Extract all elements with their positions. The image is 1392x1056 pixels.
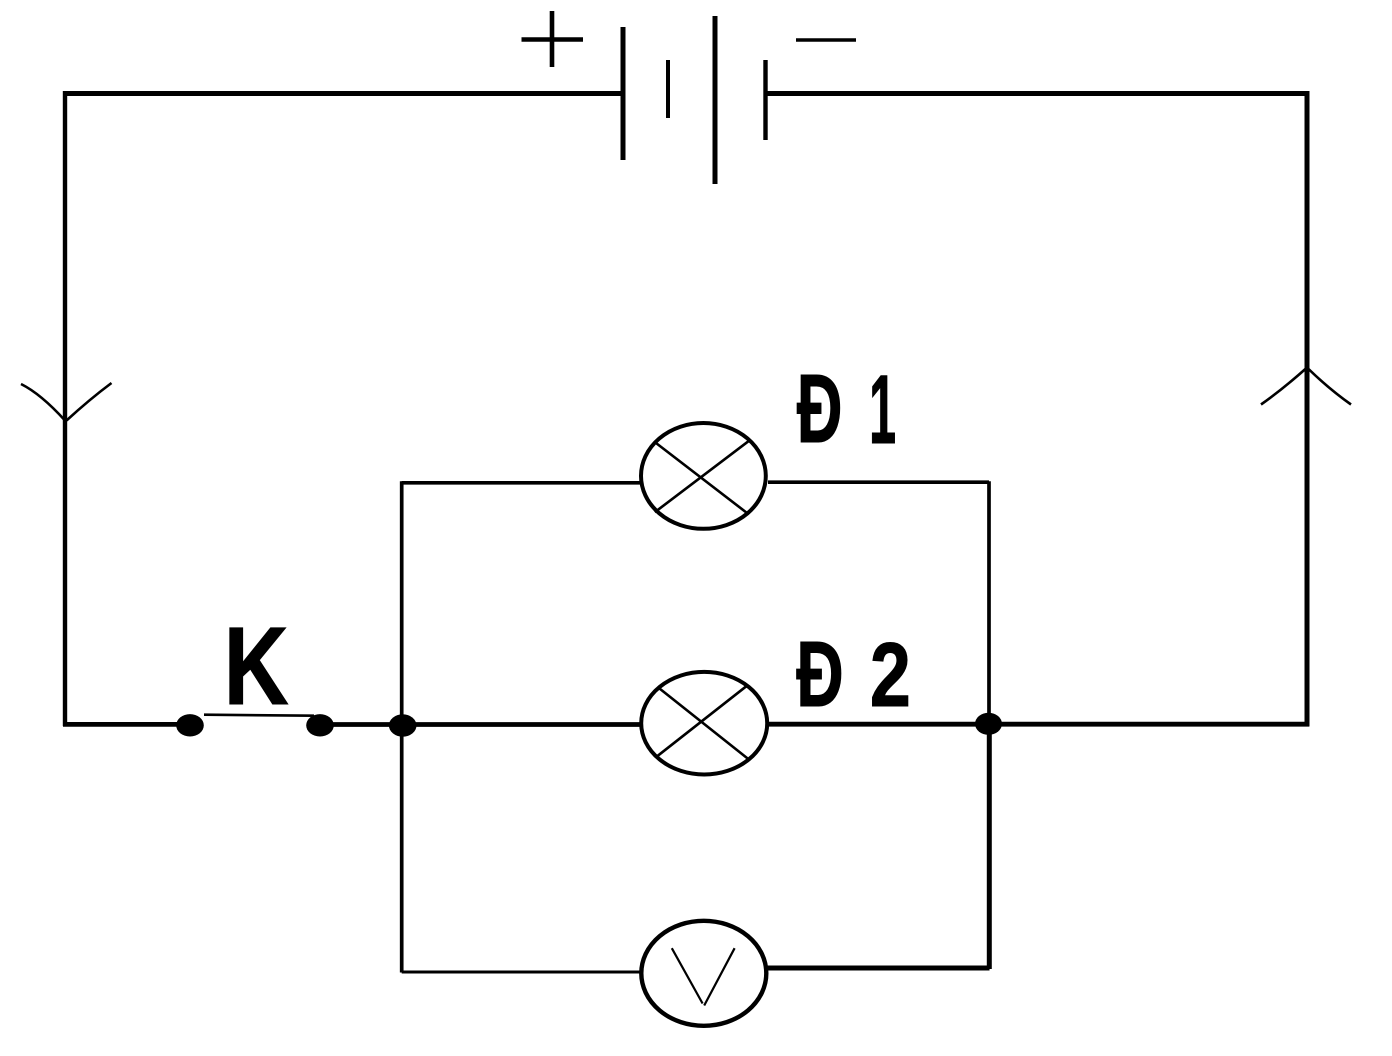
svg-text:Đ: Đ [796, 623, 844, 727]
switch terminal dot left [176, 714, 204, 736]
lamp D1 circle [641, 423, 766, 529]
wire top-right horizontal [766, 91, 1310, 96]
wire lamp2-to-right segment [769, 722, 1310, 727]
wire switch-to-lamp2 segment [320, 722, 640, 727]
battery B1 plate long left [621, 27, 626, 160]
inner branch right vertical wire lower [987, 723, 992, 969]
svg-text:Đ: Đ [797, 356, 843, 464]
battery B1 plus sign [522, 11, 584, 67]
voltmeter V glyph [672, 948, 735, 1005]
inner branch right vertical wire upper [987, 481, 991, 723]
wire bottom branch right [767, 966, 990, 971]
wire top branch right [768, 480, 989, 484]
wire right vertical [1305, 91, 1310, 727]
wire bottom branch left [402, 971, 641, 974]
junction node right [975, 713, 1002, 735]
svg-text:1: 1 [869, 356, 896, 465]
lamp D2 circle [641, 672, 767, 775]
wire top branch left [402, 481, 640, 485]
svg-text:2: 2 [870, 624, 911, 726]
battery B1 minus sign [796, 38, 856, 42]
inner branch left vertical wire [400, 481, 404, 972]
voltmeter V circle [641, 921, 766, 1026]
wire top-left horizontal [63, 91, 622, 96]
wire left vertical [63, 91, 67, 726]
switch terminal dot right [306, 714, 334, 736]
battery B1 plate long mid [713, 16, 718, 184]
current arrow right (up) [1261, 368, 1351, 405]
battery B1 plate short mid [666, 60, 670, 118]
wire main left segment [63, 722, 190, 727]
svg-text:K: K [224, 605, 289, 728]
switch K lever [204, 715, 314, 716]
battery B1 plate short right [763, 60, 767, 140]
lamp D1 cross [655, 441, 749, 513]
lamp D2 cross [658, 686, 748, 758]
junction node left [389, 714, 417, 736]
current arrow left (down) [21, 383, 112, 421]
